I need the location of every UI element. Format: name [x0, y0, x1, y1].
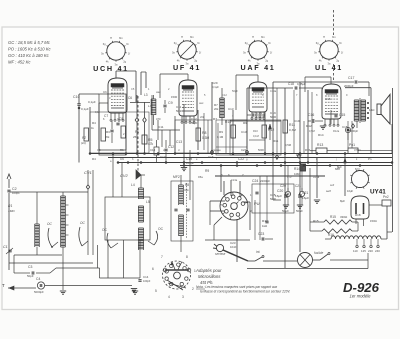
svg-text:5000: 5000 — [270, 197, 276, 201]
svg-text:PU: PU — [254, 201, 260, 206]
svg-text:R4: R4 — [92, 157, 96, 161]
svg-text:R2: R2 — [82, 136, 86, 140]
svg-text:OC: OC — [102, 228, 108, 232]
svg-text:L3: L3 — [144, 93, 148, 97]
svg-text:CV2: CV2 — [120, 173, 129, 178]
svg-text:220: 220 — [368, 249, 373, 253]
svg-text:150Ω: 150Ω — [370, 219, 377, 223]
svg-text:R16: R16 — [305, 148, 311, 152]
svg-text:5Y3: 5Y3 — [355, 167, 360, 171]
svg-text:C7: C7 — [104, 114, 108, 118]
svg-text:C18: C18 — [288, 82, 294, 86]
svg-text:50pF: 50pF — [191, 121, 198, 125]
svg-text:C29: C29 — [212, 81, 218, 85]
svg-text:R16: R16 — [328, 233, 334, 237]
svg-text:330Ω: 330Ω — [340, 215, 348, 219]
svg-text:PO : 1605 Kc à 510 Kc: PO : 1605 Kc à 510 Kc — [8, 47, 52, 52]
svg-text:R8a: R8a — [198, 175, 203, 179]
svg-text:20k: 20k — [200, 115, 205, 119]
svg-text:1MΩ: 1MΩ — [8, 209, 15, 213]
svg-text:100pF: 100pF — [143, 279, 151, 283]
svg-text:R13: R13 — [296, 153, 302, 157]
svg-text:R14: R14 — [294, 167, 300, 171]
svg-text:0,1M: 0,1M — [253, 134, 259, 138]
svg-text:R15: R15 — [330, 215, 336, 219]
svg-text:self: self — [330, 183, 334, 187]
svg-text:C13: C13 — [228, 107, 234, 111]
svg-text:0,1µF: 0,1µF — [212, 85, 219, 89]
svg-text:25k: 25k — [133, 135, 138, 139]
svg-text:C14: C14 — [143, 275, 149, 279]
svg-text:masse: masse — [213, 149, 221, 152]
svg-text:0,1: 0,1 — [95, 110, 99, 114]
svg-text:OC: OC — [158, 227, 164, 231]
svg-text:8: 8 — [186, 255, 188, 259]
svg-text:self: self — [326, 189, 331, 193]
svg-text:2: 2 — [192, 287, 194, 291]
svg-text:C16: C16 — [308, 113, 314, 117]
svg-text:C14: C14 — [160, 155, 166, 159]
svg-text:Microsillons: Microsillons — [198, 274, 221, 279]
svg-text:15Ω: 15Ω — [369, 108, 375, 112]
svg-text:8m: 8m — [332, 35, 336, 39]
svg-text:C21: C21 — [295, 184, 301, 188]
svg-text:L5: L5 — [146, 200, 150, 204]
svg-text:C14: C14 — [150, 148, 156, 152]
svg-text:4: 4 — [168, 295, 170, 299]
svg-text:8µF: 8µF — [340, 199, 345, 203]
svg-text:9t: 9t — [126, 42, 128, 46]
svg-text:125: 125 — [361, 249, 366, 253]
svg-text:1f: 1f — [270, 50, 272, 54]
svg-text:1er modèle: 1er modèle — [350, 294, 372, 299]
svg-text:R4: R4 — [92, 121, 96, 125]
svg-text:50pF: 50pF — [176, 109, 182, 113]
svg-text:9t: 9t — [339, 41, 341, 45]
svg-text:10nF: 10nF — [230, 245, 237, 249]
svg-text:1500: 1500 — [171, 95, 178, 99]
svg-text:UF 41: UF 41 — [173, 63, 201, 72]
svg-text:1kΩ: 1kΩ — [262, 224, 268, 228]
svg-text:0,1µF: 0,1µF — [81, 107, 89, 111]
svg-text:C17: C17 — [348, 76, 354, 80]
svg-text:5000: 5000 — [258, 148, 264, 152]
svg-text:0,05µF: 0,05µF — [297, 82, 306, 86]
svg-text:R6: R6 — [135, 130, 139, 134]
svg-text:C16: C16 — [208, 155, 214, 159]
svg-text:470: 470 — [156, 117, 161, 121]
svg-text:R18: R18 — [355, 213, 361, 217]
svg-text:R12a: R12a — [333, 129, 340, 133]
svg-text:470: 470 — [287, 175, 292, 179]
svg-text:C11: C11 — [158, 125, 164, 129]
svg-text:C24: C24 — [252, 179, 258, 183]
svg-text:R9: R9 — [219, 130, 223, 134]
svg-text:C13: C13 — [176, 140, 182, 144]
svg-text:fusible: fusible — [314, 251, 323, 255]
svg-text:0,3M: 0,3M — [289, 128, 296, 132]
svg-text:7f: 7f — [181, 35, 183, 39]
svg-text:R15a: R15a — [313, 175, 320, 179]
svg-text:C23: C23 — [258, 232, 264, 236]
svg-text:C15: C15 — [342, 125, 348, 129]
svg-text:R12: R12 — [306, 124, 312, 128]
svg-text:7f: 7f — [110, 36, 112, 40]
svg-text:MF2: MF2 — [173, 175, 180, 179]
svg-text:0,1µF: 0,1µF — [88, 100, 96, 104]
svg-text:3: 3 — [182, 295, 184, 299]
svg-text:C3: C3 — [28, 265, 32, 269]
svg-text:C15: C15 — [325, 97, 331, 101]
svg-text:R14: R14 — [318, 133, 324, 137]
svg-text:R6: R6 — [120, 148, 124, 152]
svg-text:1f: 1f — [128, 51, 130, 55]
svg-text:8µF: 8µF — [337, 165, 342, 169]
svg-text:C12: C12 — [222, 93, 227, 97]
svg-text:5000pF: 5000pF — [349, 129, 358, 133]
svg-text:100pF: 100pF — [256, 115, 265, 119]
svg-text:GO : 410 Kc à 180 Kc: GO : 410 Kc à 180 Kc — [8, 53, 50, 58]
svg-text:9t: 9t — [268, 41, 270, 45]
svg-text:C25: C25 — [270, 193, 276, 197]
svg-text:16µF: 16µF — [347, 189, 354, 193]
svg-text:osc: osc — [156, 90, 161, 94]
svg-text:C19: C19 — [294, 119, 300, 123]
svg-text:OC: OC — [80, 221, 85, 225]
svg-text:Ch: Ch — [103, 90, 107, 94]
svg-text:0,3M: 0,3M — [202, 136, 209, 140]
svg-text:C20: C20 — [280, 184, 286, 188]
svg-text:R1: R1 — [8, 204, 12, 208]
svg-text:1MΩ: 1MΩ — [294, 172, 301, 176]
svg-text:50µF: 50µF — [282, 209, 289, 213]
svg-text:20k: 20k — [105, 135, 110, 139]
svg-text:R17: R17 — [262, 219, 268, 223]
svg-text:50µF: 50µF — [296, 209, 303, 213]
svg-text:16µF: 16µF — [275, 194, 282, 198]
svg-text:110: 110 — [353, 249, 358, 253]
svg-text:6: 6 — [152, 267, 154, 271]
svg-text:C5: C5 — [131, 87, 135, 91]
svg-text:C1: C1 — [3, 245, 8, 249]
svg-text:L4: L4 — [131, 183, 135, 187]
svg-text:Pn2: Pn2 — [383, 195, 389, 199]
svg-text:C10: C10 — [73, 95, 80, 99]
svg-text:T: T — [2, 283, 5, 288]
svg-text:50pF: 50pF — [27, 274, 34, 278]
svg-text:UL 41: UL 41 — [315, 63, 343, 72]
svg-text:R8: R8 — [185, 183, 189, 187]
svg-text:470Ω: 470Ω — [354, 148, 361, 152]
svg-text:C22: C22 — [238, 157, 244, 161]
svg-text:7f: 7f — [323, 35, 325, 39]
svg-text:9t: 9t — [197, 41, 199, 45]
svg-text:Pn: Pn — [368, 157, 372, 161]
svg-text:8m: 8m — [119, 36, 123, 40]
svg-text:GC : 18,5 Mc à 5,7 Mc: GC : 18,5 Mc à 5,7 Mc — [8, 40, 51, 45]
svg-text:(int): (int) — [81, 141, 86, 145]
svg-text:osc: osc — [199, 101, 204, 105]
svg-text:1f: 1f — [341, 50, 343, 54]
svg-text:UCH 41: UCH 41 — [93, 64, 129, 73]
svg-text:0,1M: 0,1M — [217, 135, 224, 139]
svg-text:C22: C22 — [241, 148, 247, 152]
svg-text:C11: C11 — [176, 105, 182, 109]
svg-text:UAF 41: UAF 41 — [241, 63, 276, 72]
svg-text:5: 5 — [155, 289, 157, 293]
svg-text:C9: C9 — [97, 148, 101, 152]
svg-text:20k: 20k — [214, 107, 219, 111]
svg-text:C20: C20 — [277, 189, 283, 193]
svg-text:8m: 8m — [261, 35, 265, 39]
svg-text:C14a: C14a — [270, 89, 277, 93]
svg-text:C13: C13 — [241, 130, 247, 134]
svg-text:Nota : Les tensions marquées s: Nota : Les tensions marquées sont prises… — [196, 285, 278, 289]
svg-text:240: 240 — [375, 249, 380, 253]
svg-text:7: 7 — [161, 255, 163, 259]
svg-text:1f: 1f — [199, 50, 201, 54]
svg-text:2000pF: 2000pF — [344, 84, 354, 88]
svg-text:Adaptés pour: Adaptés pour — [195, 268, 222, 273]
svg-text:100pF: 100pF — [186, 161, 194, 165]
svg-text:100pF: 100pF — [12, 191, 20, 195]
svg-text:C6: C6 — [128, 96, 132, 100]
svg-text:secteur: secteur — [215, 252, 226, 256]
svg-text:C24a: C24a — [231, 178, 238, 182]
svg-text:C15: C15 — [339, 113, 345, 117]
svg-text:R9: R9 — [205, 169, 209, 173]
svg-text:C8: C8 — [119, 117, 123, 121]
svg-text:0,5M: 0,5M — [309, 129, 315, 133]
svg-text:R3: R3 — [106, 130, 110, 134]
svg-text:R13: R13 — [317, 143, 323, 147]
svg-text:34k: 34k — [184, 188, 189, 192]
svg-text:R9: R9 — [243, 121, 247, 125]
svg-text:7f: 7f — [252, 35, 254, 39]
svg-text:5000pF: 5000pF — [34, 290, 44, 294]
svg-text:5000: 5000 — [270, 115, 277, 119]
svg-text:MF : 452 Kc: MF : 452 Kc — [8, 60, 31, 65]
svg-text:R15: R15 — [313, 219, 319, 223]
svg-text:L3: L3 — [148, 104, 152, 108]
svg-text:C12: C12 — [168, 145, 174, 149]
svg-text:int: int — [256, 250, 260, 254]
svg-text:C9: C9 — [120, 157, 124, 161]
svg-text:8m: 8m — [190, 35, 194, 39]
svg-text:C4: C4 — [36, 277, 40, 281]
svg-text:OC: OC — [47, 222, 52, 226]
svg-text:C9: C9 — [168, 101, 173, 105]
svg-text:la Masse et correspondent au f: la Masse et correspondent au fonctionnem… — [200, 290, 291, 294]
svg-text:R7: R7 — [213, 117, 217, 121]
svg-text:2200pF: 2200pF — [260, 179, 270, 183]
svg-text:50pF: 50pF — [232, 89, 238, 93]
svg-text:0,5M: 0,5M — [285, 143, 292, 147]
svg-text:R10: R10 — [253, 129, 258, 133]
svg-text:R11: R11 — [273, 139, 279, 143]
svg-text:R7: R7 — [214, 103, 218, 107]
